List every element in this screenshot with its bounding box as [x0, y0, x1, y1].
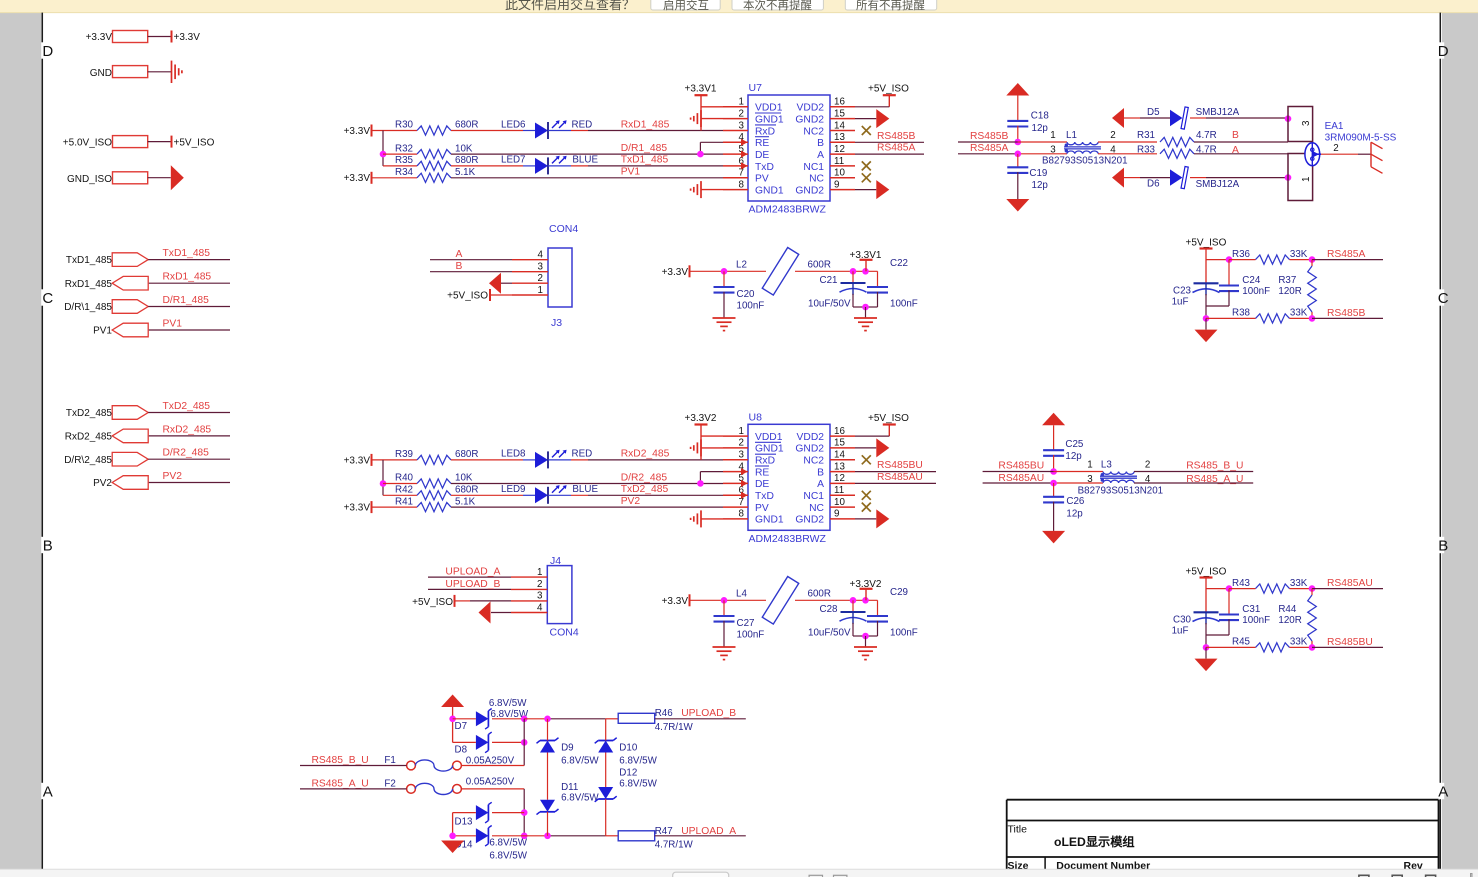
wire rail bottom — [524, 835, 547, 837]
svg-text:C21: C21 — [820, 275, 838, 286]
svg-text:10uF/50V: 10uF/50V — [808, 298, 851, 309]
svg-text:A: A — [817, 150, 824, 161]
junction — [1285, 174, 1292, 181]
svg-text:3RM090M-5-SS: 3RM090M-5-SS — [1325, 133, 1397, 144]
wire — [451, 459, 523, 461]
wire — [701, 189, 723, 191]
svg-text:100nF: 100nF — [1242, 286, 1270, 297]
svg-text:A: A — [1438, 784, 1448, 801]
svg-text:120R: 120R — [1278, 615, 1301, 626]
no-connect NC2 — [862, 455, 871, 464]
svg-text:RS485AU: RS485AU — [998, 473, 1044, 484]
wire — [383, 165, 417, 167]
svg-text:D8: D8 — [455, 745, 468, 756]
svg-text:C: C — [1438, 290, 1449, 307]
svg-text:12p: 12p — [1065, 451, 1082, 462]
junction — [380, 480, 387, 487]
svg-text:TxD1_485: TxD1_485 — [621, 155, 669, 166]
wire — [453, 718, 476, 720]
svg-text:8: 8 — [739, 509, 745, 520]
svg-text:D5: D5 — [1147, 107, 1160, 118]
wire — [451, 494, 523, 496]
wire — [983, 482, 1054, 484]
capacitor C23 1uF — [1194, 282, 1219, 284]
svg-text:C28: C28 — [820, 604, 839, 615]
junction — [544, 716, 551, 723]
wire — [453, 741, 476, 743]
svg-text:A: A — [43, 784, 53, 801]
svg-text:NC: NC — [809, 503, 824, 514]
wire — [888, 425, 890, 437]
svg-text:600R: 600R — [808, 588, 831, 599]
capacitor C28 10uF/50V — [852, 600, 854, 612]
svg-text:D6: D6 — [1147, 179, 1160, 190]
pin 1 U7 (VDD1) — [723, 106, 748, 108]
wire — [547, 812, 549, 836]
svg-text:EA1: EA1 — [1325, 121, 1344, 132]
svg-text:R36: R36 — [1232, 249, 1251, 260]
pin 5 U7 (DE) — [723, 153, 748, 155]
wire — [451, 165, 523, 167]
svg-text:D/R1_485: D/R1_485 — [163, 295, 210, 306]
svg-text:本次不再提醒: 本次不再提醒 — [743, 0, 812, 12]
wire net UPLOAD_B — [428, 588, 511, 590]
off-page symbol (D5) — [1112, 108, 1124, 128]
bottom toolbar — [0, 869, 1478, 877]
top yellow notification bar — [0, 0, 1478, 13]
svg-text:C26: C26 — [1066, 496, 1085, 507]
svg-text:+3.3V: +3.3V — [344, 503, 371, 514]
junction — [850, 268, 857, 275]
svg-text:100nF: 100nF — [1242, 615, 1270, 626]
svg-text:CON4: CON4 — [550, 627, 579, 639]
svg-text:B: B — [456, 261, 463, 272]
svg-text:GND2: GND2 — [795, 114, 824, 125]
svg-text:B82793S0513N201: B82793S0513N201 — [1042, 155, 1128, 166]
toolbar icon 5 — [1426, 875, 1436, 877]
svg-text:2: 2 — [1145, 459, 1150, 470]
wire — [148, 412, 230, 414]
pin 9 U8 (GND2) — [830, 518, 855, 520]
svg-text:D13: D13 — [455, 817, 474, 828]
wire — [1206, 646, 1256, 648]
junction — [721, 597, 728, 604]
svg-text:GND1: GND1 — [755, 515, 784, 526]
junction — [1203, 644, 1210, 651]
wire — [451, 483, 723, 485]
svg-text:C25: C25 — [1065, 439, 1084, 450]
toolbar icon 3 — [1359, 875, 1369, 877]
ground arrow (termination) — [1205, 318, 1207, 329]
wire — [548, 130, 571, 132]
svg-text:2: 2 — [1333, 143, 1338, 154]
ground (C21/C22) — [865, 307, 867, 318]
no-connect NC1 — [862, 161, 871, 170]
wire — [701, 447, 723, 449]
svg-text:16: 16 — [834, 426, 845, 437]
svg-text:10: 10 — [834, 497, 845, 508]
pin 16 U7 (VDD2) — [830, 106, 855, 108]
svg-text:1: 1 — [1301, 177, 1312, 182]
junction — [544, 833, 551, 840]
junction — [1309, 256, 1316, 263]
wire — [855, 471, 936, 473]
svg-text:RxD2_485: RxD2_485 — [621, 449, 670, 460]
svg-text:R38: R38 — [1232, 308, 1251, 319]
wire — [548, 494, 571, 496]
svg-text:TxD1_485: TxD1_485 — [163, 248, 211, 259]
row letter C right — [1439, 289, 1444, 305]
svg-text:1: 1 — [1087, 459, 1092, 470]
wire — [148, 141, 172, 143]
title block divider — [1044, 857, 1046, 877]
svg-text:0.05A250V: 0.05A250V — [466, 756, 515, 767]
svg-text:PV: PV — [755, 174, 769, 185]
svg-text:UPLOAD_B: UPLOAD_B — [445, 579, 500, 590]
svg-text:680R: 680R — [455, 449, 478, 460]
svg-text:B82793S0513N201: B82793S0513N201 — [1078, 485, 1164, 496]
svg-text:11: 11 — [834, 156, 844, 167]
svg-text:+3.3V: +3.3V — [86, 32, 113, 43]
junction — [697, 151, 704, 158]
svg-text:B: B — [1438, 538, 1448, 555]
pin 14 U8 (NC2) — [830, 459, 855, 461]
svg-text:NC: NC — [809, 174, 824, 185]
svg-text:C27: C27 — [737, 618, 755, 629]
svg-text:D9: D9 — [561, 743, 574, 754]
svg-text:13: 13 — [834, 461, 845, 472]
off-page symbol (pin15 GND2) — [855, 118, 876, 120]
svg-text:+3.3V: +3.3V — [662, 267, 689, 278]
notification button 1 — [651, 0, 720, 10]
svg-text:R39: R39 — [395, 449, 413, 460]
resistor R44 120R — [1311, 589, 1313, 595]
wire — [690, 270, 767, 272]
svg-text:A: A — [817, 479, 824, 490]
svg-text:C30: C30 — [1173, 615, 1192, 626]
svg-text:R37: R37 — [1278, 275, 1296, 286]
svg-text:B: B — [817, 138, 824, 149]
svg-text:+3.3V: +3.3V — [174, 32, 201, 43]
svg-text:D10: D10 — [619, 743, 638, 754]
wire — [149, 435, 230, 437]
pin 9 U7 (GND2) — [830, 189, 855, 191]
svg-text:1: 1 — [739, 97, 744, 108]
svg-text:R33: R33 — [1137, 145, 1156, 156]
svg-text:C29: C29 — [890, 587, 908, 598]
wire — [149, 329, 230, 331]
wire net B — [430, 271, 512, 273]
left gray viewer margin — [0, 13, 42, 870]
svg-text:RxD2_485: RxD2_485 — [163, 424, 212, 435]
svg-text:4.7R: 4.7R — [1196, 130, 1217, 141]
pin 4 U7 (RE) — [723, 141, 748, 143]
wire — [149, 282, 230, 284]
wire — [795, 270, 878, 272]
wire — [1017, 126, 1019, 142]
wire — [1053, 425, 1055, 450]
svg-text:J3: J3 — [551, 317, 562, 329]
svg-text:RxD1_485: RxD1_485 — [65, 279, 113, 290]
svg-text:VDD2: VDD2 — [797, 103, 825, 114]
row letter B right — [1439, 537, 1444, 553]
off-page symbol (pin9 GND2) — [855, 189, 876, 191]
svg-text:RS485BU: RS485BU — [1327, 637, 1373, 648]
svg-text:6.8V/5W: 6.8V/5W — [561, 793, 599, 804]
wire — [700, 425, 702, 460]
toolbar icon 2 — [834, 875, 847, 877]
svg-text:RE: RE — [755, 467, 769, 478]
pin 2 U8 (GND1) — [723, 447, 748, 449]
svg-text:此文件启用交互查看？: 此文件启用交互查看？ — [505, 0, 635, 12]
svg-text:10: 10 — [834, 168, 845, 179]
svg-text:RE: RE — [755, 138, 769, 149]
junction — [862, 304, 869, 311]
svg-text:RxD: RxD — [755, 126, 775, 137]
svg-text:4.7R/1W: 4.7R/1W — [655, 840, 694, 851]
svg-text:5.1K: 5.1K — [455, 167, 476, 178]
svg-text:RED: RED — [572, 119, 593, 130]
svg-text:+5V_ISO: +5V_ISO — [868, 84, 909, 95]
svg-text:SMBJ12A: SMBJ12A — [1196, 107, 1240, 118]
svg-text:UPLOAD_A: UPLOAD_A — [681, 826, 736, 837]
pin 11 U8 (NC1) — [830, 494, 855, 496]
svg-text:12: 12 — [834, 473, 845, 484]
svg-text:PV2: PV2 — [93, 478, 112, 489]
iso ground symbol (GND) — [171, 61, 173, 83]
junction — [1226, 256, 1233, 263]
wire — [700, 95, 702, 130]
svg-text:16: 16 — [834, 97, 845, 108]
toolbar pill button — [673, 872, 729, 877]
svg-text:33K: 33K — [1290, 637, 1308, 648]
svg-text:3: 3 — [739, 120, 745, 131]
wire — [149, 482, 230, 484]
svg-text:RS485_A_U: RS485_A_U — [312, 778, 369, 789]
svg-text:UPLOAD_A: UPLOAD_A — [445, 567, 500, 578]
svg-text:1: 1 — [1050, 130, 1055, 141]
chassis ground (EA1) — [1370, 142, 1372, 167]
svg-text:F2: F2 — [384, 778, 395, 789]
svg-text:R45: R45 — [1232, 637, 1251, 648]
pin 3 U8 (RxD) — [723, 459, 748, 461]
off-page symbol (J4 pin4) — [491, 612, 511, 614]
svg-text:2: 2 — [739, 438, 744, 449]
svg-text:RS485A: RS485A — [1327, 249, 1365, 260]
pin input arrow — [741, 139, 748, 146]
wire — [148, 71, 172, 73]
svg-text:R30: R30 — [395, 120, 414, 131]
wire — [548, 459, 571, 461]
junction — [1309, 585, 1316, 592]
svg-text:+5V_ISO: +5V_ISO — [868, 413, 909, 424]
junction — [1050, 468, 1057, 475]
svg-text:1: 1 — [538, 285, 543, 296]
svg-text:C20: C20 — [737, 289, 756, 300]
svg-text:PV1: PV1 — [93, 326, 112, 337]
svg-text:3: 3 — [1301, 120, 1312, 126]
pin 8 U7 (GND1) — [723, 189, 748, 191]
wire — [1053, 455, 1055, 472]
wire — [382, 131, 384, 166]
svg-text:R44: R44 — [1278, 604, 1297, 615]
wire — [1124, 117, 1140, 119]
svg-text:B: B — [1232, 130, 1239, 141]
row letter B left — [41, 537, 47, 553]
svg-text:GND1: GND1 — [755, 114, 784, 125]
svg-text:2: 2 — [537, 579, 542, 590]
svg-text:GND2: GND2 — [795, 185, 824, 196]
svg-text:9: 9 — [834, 179, 839, 190]
svg-text:L2: L2 — [736, 259, 747, 270]
wire — [1312, 317, 1383, 319]
wire — [690, 599, 767, 601]
svg-text:C18: C18 — [1031, 111, 1050, 122]
junction — [449, 716, 456, 723]
wire — [1312, 588, 1383, 590]
wire — [453, 812, 476, 814]
capacitor C18 12p — [1007, 120, 1028, 122]
capacitor C27 100nF — [723, 600, 725, 616]
svg-text:CON4: CON4 — [549, 223, 578, 235]
svg-text:D/R\1_485: D/R\1_485 — [64, 302, 112, 313]
svg-text:+5V_ISO: +5V_ISO — [174, 138, 215, 149]
wire — [1098, 141, 1157, 143]
wire net A — [430, 259, 512, 261]
svg-text:680R: 680R — [455, 485, 478, 496]
resistor R37 120R — [1311, 260, 1313, 266]
svg-text:RxD: RxD — [755, 456, 775, 467]
svg-text:9: 9 — [834, 509, 839, 520]
svg-text:33K: 33K — [1290, 308, 1308, 319]
svg-text:TxD2_485: TxD2_485 — [66, 408, 113, 419]
pin input arrow — [741, 480, 748, 487]
svg-text:12p: 12p — [1032, 180, 1049, 191]
svg-text:TxD: TxD — [755, 491, 774, 502]
svg-text:15: 15 — [834, 438, 845, 449]
svg-text:680R: 680R — [455, 155, 478, 166]
wire — [1134, 482, 1253, 484]
wire — [1017, 96, 1019, 121]
wire — [300, 765, 407, 767]
svg-text:R32: R32 — [395, 143, 413, 154]
wire — [372, 459, 418, 461]
row letter C left — [41, 289, 47, 305]
wire — [605, 719, 607, 741]
svg-text:3: 3 — [1050, 145, 1056, 156]
svg-text:1: 1 — [739, 426, 744, 437]
svg-text:TxD1_485: TxD1_485 — [66, 255, 113, 266]
notification button 2 — [732, 0, 823, 10]
ground arrow (TVS bottom) — [441, 841, 464, 854]
svg-text:PV1: PV1 — [163, 318, 183, 329]
capacitor C20 100nF — [723, 271, 725, 287]
svg-text:2: 2 — [538, 273, 543, 284]
svg-text:D/R2_485: D/R2_485 — [163, 448, 210, 459]
off-page symbol GND_ISO — [171, 165, 184, 190]
no-connect NC1 — [862, 491, 871, 500]
wire — [382, 460, 384, 495]
svg-text:NC2: NC2 — [803, 456, 824, 467]
svg-text:3: 3 — [537, 591, 543, 602]
svg-text:6.8V/5W: 6.8V/5W — [561, 756, 599, 767]
svg-text:R40: R40 — [395, 473, 414, 484]
wire — [547, 753, 549, 800]
wire — [795, 599, 878, 601]
junction — [449, 833, 456, 840]
row letter D left — [41, 42, 47, 58]
svg-text:C23: C23 — [1173, 286, 1192, 297]
svg-text:GND: GND — [90, 68, 112, 79]
svg-text:RED: RED — [572, 449, 593, 460]
pin 10 U8 (NC) — [830, 506, 855, 508]
wire — [655, 718, 746, 720]
svg-text:VDD1: VDD1 — [755, 432, 783, 443]
wire — [451, 153, 723, 155]
wire — [452, 707, 454, 742]
svg-text:+5V_ISO: +5V_ISO — [447, 291, 488, 302]
capacitor C25 12p — [1043, 449, 1064, 451]
svg-text:8: 8 — [739, 179, 745, 190]
capacitor C30 1uF — [1194, 611, 1219, 613]
svg-text:1uF: 1uF — [1172, 626, 1189, 637]
svg-text:B: B — [817, 467, 824, 478]
svg-text:0.05A250V: 0.05A250V — [466, 776, 515, 787]
svg-text:BLUE: BLUE — [572, 484, 598, 495]
wire — [148, 177, 171, 179]
junction — [862, 633, 869, 640]
pin 11 U7 (NC1) — [830, 165, 855, 167]
svg-text:D12: D12 — [619, 768, 637, 779]
junction — [521, 739, 528, 746]
junction — [1309, 315, 1316, 322]
wire — [888, 95, 890, 107]
svg-text:100nF: 100nF — [737, 300, 765, 311]
wire — [148, 36, 172, 38]
svg-text:LED9: LED9 — [501, 484, 526, 495]
svg-text:Title: Title — [1008, 824, 1028, 836]
iso ground symbol (pin8) — [700, 181, 702, 198]
svg-text:启用交互: 启用交互 — [663, 0, 709, 12]
svg-text:RxD1_485: RxD1_485 — [163, 272, 212, 283]
svg-text:RxD1_485: RxD1_485 — [621, 119, 670, 130]
toolbar icon 4 — [1392, 875, 1402, 877]
svg-text:GND1: GND1 — [755, 185, 784, 196]
wire pin4 jog — [700, 141, 723, 143]
iso ground symbol (pin2) — [700, 439, 702, 456]
right gray viewer margin — [1442, 13, 1478, 870]
power symbol +3.3V — [171, 31, 173, 43]
svg-text:RS485AU: RS485AU — [877, 472, 923, 483]
ground arrow (termination) — [1205, 647, 1207, 658]
iso ground symbol (pin2) — [700, 110, 702, 127]
no-connect NC — [862, 503, 871, 512]
connector EA1 3RM090M-5-SS — [1288, 107, 1313, 201]
svg-text:10uF/50V: 10uF/50V — [808, 627, 851, 638]
svg-text:3: 3 — [1087, 474, 1093, 485]
svg-text:R35: R35 — [395, 155, 414, 166]
svg-text:+3.3V: +3.3V — [344, 126, 371, 137]
junction — [1015, 139, 1022, 146]
svg-text:12p: 12p — [1032, 123, 1049, 134]
svg-text:+3.3V: +3.3V — [344, 455, 371, 466]
capacitor C26 12p — [1053, 483, 1055, 497]
svg-text:4.7R/1W: 4.7R/1W — [655, 722, 694, 733]
pin 12 U7 (A) — [830, 153, 855, 155]
svg-text:PV2: PV2 — [163, 471, 183, 482]
svg-text:R46: R46 — [655, 708, 674, 719]
wire — [655, 835, 746, 837]
